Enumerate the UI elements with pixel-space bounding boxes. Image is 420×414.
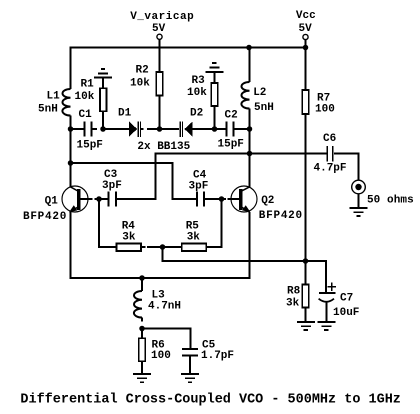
wire varicap node to D2 xyxy=(160,128,180,130)
svg-text:R3: R3 xyxy=(192,75,206,87)
svg-text:4.7pF: 4.7pF xyxy=(314,163,347,175)
terminal V_varicap xyxy=(157,34,162,39)
resistor R2 xyxy=(156,72,163,96)
wire Q1 base stub xyxy=(81,198,93,200)
svg-text:100: 100 xyxy=(315,104,335,116)
wire R5 to Q2 base xyxy=(207,199,222,247)
capacitor C4 xyxy=(197,192,204,207)
capacitor C3 xyxy=(109,192,117,207)
capacitor C6 xyxy=(327,146,333,161)
resistor R5 xyxy=(182,244,207,252)
capacitor C2 xyxy=(227,122,234,137)
node R1 bottom xyxy=(100,126,106,132)
svg-text:Vcc: Vcc xyxy=(296,10,316,22)
node right rail varicap row xyxy=(247,126,253,132)
node cross-wire left xyxy=(68,160,74,166)
wire left rail upper xyxy=(70,47,72,90)
node Q2 base xyxy=(219,196,225,202)
node varicap row left xyxy=(68,126,74,132)
node R4-R5 midpoint xyxy=(160,244,166,250)
svg-text:15pF: 15pF xyxy=(77,140,103,152)
wire R3 bottom stem xyxy=(213,106,215,129)
diode D2 varicap xyxy=(180,121,192,137)
svg-text:C1: C1 xyxy=(79,109,93,121)
wire R1 node to D1 xyxy=(101,128,129,130)
wire Q1 base to node xyxy=(95,198,108,200)
svg-text:3pF: 3pF xyxy=(189,181,209,193)
wire C1 to R1 pin gap xyxy=(92,128,97,130)
ground output xyxy=(350,208,368,216)
capacitor C7 polarized xyxy=(319,282,337,321)
wire L3 bottom stub xyxy=(141,318,143,322)
wire top rail xyxy=(70,47,306,49)
capacitor C5 xyxy=(182,349,198,374)
wire D1 cathode stub xyxy=(141,128,144,130)
wire mid node to R5 xyxy=(163,246,182,248)
node R3 bottom xyxy=(212,126,218,132)
resistor R1 xyxy=(100,88,107,111)
node bias R8 xyxy=(303,258,309,264)
wire R1 bottom stem xyxy=(102,111,104,129)
ground C5 xyxy=(181,374,199,382)
wire right rail lower xyxy=(249,109,251,187)
resistor R8 xyxy=(302,261,309,322)
capacitor C1 xyxy=(85,122,92,137)
resistor R4 xyxy=(117,244,142,252)
wire node to C5 xyxy=(142,329,191,349)
svg-text:5V: 5V xyxy=(152,23,166,35)
svg-text:1.7pF: 1.7pF xyxy=(201,350,234,362)
wire C4 to Q2 base node xyxy=(205,198,226,200)
wire varicap rail upper xyxy=(159,40,161,73)
wire C2 to right rail xyxy=(234,128,250,130)
diode D1 varicap xyxy=(129,121,140,137)
svg-text:3pF: 3pF xyxy=(102,180,122,192)
svg-text:10k: 10k xyxy=(187,87,207,99)
svg-text:R1: R1 xyxy=(81,79,95,91)
svg-text:D2: D2 xyxy=(190,108,203,120)
svg-text:3k: 3k xyxy=(122,232,136,244)
svg-text:Q2: Q2 xyxy=(261,195,274,207)
node L3 bottom xyxy=(139,326,145,332)
wire Vcc rail R7 to bias node xyxy=(305,114,307,261)
svg-text:100: 100 xyxy=(151,350,171,362)
svg-text:4.7nH: 4.7nH xyxy=(148,301,181,313)
inductor L2 xyxy=(241,82,249,109)
resistor R6 xyxy=(139,329,146,374)
wire Vcc stem xyxy=(305,40,307,48)
wire C6 to output xyxy=(334,154,359,181)
transistor Q1 xyxy=(62,186,88,212)
svg-text:V_varicap: V_varicap xyxy=(130,11,194,23)
svg-text:10k: 10k xyxy=(130,78,150,90)
resistor R7 xyxy=(302,90,309,114)
wire cross-coupling C4 line xyxy=(71,163,197,199)
svg-text:10k: 10k xyxy=(75,91,95,103)
wire R3 node to C2 xyxy=(215,128,226,130)
svg-text:3k: 3k xyxy=(187,232,201,244)
svg-text:2x BB135: 2x BB135 xyxy=(137,141,190,153)
wire to mid node xyxy=(147,246,163,248)
wire right rail upper xyxy=(249,48,251,83)
ground above R3 xyxy=(205,63,223,83)
transistor Q2 xyxy=(231,186,257,212)
svg-text:5nH: 5nH xyxy=(254,102,274,114)
wire bias line to C7 xyxy=(163,247,326,293)
wire varicap rail lower xyxy=(159,96,161,130)
wire cross-coupling C3 line xyxy=(117,154,326,200)
node Q1 base xyxy=(96,196,102,202)
terminal Vcc xyxy=(303,34,308,39)
ground R6 xyxy=(133,374,151,382)
svg-text:Q1: Q1 xyxy=(45,196,59,208)
wire Q2 base stub xyxy=(228,198,240,200)
svg-text:L2: L2 xyxy=(253,87,266,99)
wire left rail lower xyxy=(70,116,72,187)
svg-text:C7: C7 xyxy=(340,293,353,305)
svg-text:BFP420: BFP420 xyxy=(259,210,302,222)
wire output to ground xyxy=(358,194,360,208)
svg-text:C6: C6 xyxy=(323,133,336,145)
node emitter rail L3 tap xyxy=(139,275,145,281)
svg-text:L1: L1 xyxy=(47,91,61,103)
svg-text:D1: D1 xyxy=(118,108,132,120)
node right rail C3 tap xyxy=(247,151,253,157)
svg-text:5nH: 5nH xyxy=(38,104,58,116)
wire Q1 base bias drop xyxy=(99,199,116,247)
inductor L1 xyxy=(62,89,70,116)
inductor L3 xyxy=(134,291,142,317)
node Vcc rail top xyxy=(303,45,309,51)
svg-text:10uF: 10uF xyxy=(333,307,359,319)
svg-text:R8: R8 xyxy=(287,286,301,298)
output connector 50 ohms xyxy=(352,180,366,194)
wire varicap row C1 left xyxy=(71,128,84,130)
wire D2 to R3 node xyxy=(193,128,215,130)
wire L3 top stem xyxy=(141,278,143,291)
resistor R3 xyxy=(211,83,218,106)
svg-text:R4: R4 xyxy=(122,220,136,232)
wire emitter loop Q1-Q2 xyxy=(71,212,250,278)
ground C7 xyxy=(317,322,335,330)
ground above R1 xyxy=(94,69,112,88)
svg-text:50 ohms: 50 ohms xyxy=(367,195,414,207)
svg-text:C2: C2 xyxy=(225,110,238,122)
svg-text:R2: R2 xyxy=(136,65,149,77)
wire to varicap node xyxy=(147,128,160,130)
svg-text:15pF: 15pF xyxy=(218,138,244,150)
node top rail Q2 branch xyxy=(246,45,252,51)
ground R8 xyxy=(297,322,315,330)
wire R4 right stub xyxy=(142,246,146,248)
wire Vcc rail to R7 xyxy=(305,48,307,91)
svg-text:R5: R5 xyxy=(186,220,200,232)
svg-text:3k: 3k xyxy=(286,298,300,310)
svg-text:5V: 5V xyxy=(299,23,313,35)
svg-text:Differential Cross-Coupled VCO: Differential Cross-Coupled VCO - 500MHz … xyxy=(20,393,401,408)
node varicap center xyxy=(157,126,163,132)
svg-text:BFP420: BFP420 xyxy=(23,211,66,223)
